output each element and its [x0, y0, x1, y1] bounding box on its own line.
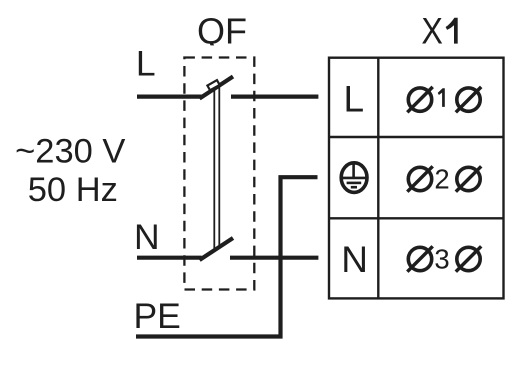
- terminal number 1: [438, 88, 445, 107]
- X1 column divider: [377, 58, 379, 299]
- svg-text:N: N: [134, 217, 160, 257]
- QF pole 2 switch contact (N): [200, 238, 234, 260]
- wire PE from supply to terminal 2: [136, 177, 318, 336]
- wire N from QF pole 2 to terminal 3: [230, 256, 318, 260]
- wire L from supply to QF pole 1: [137, 94, 202, 98]
- svg-text:~230 V: ~230 V: [15, 133, 125, 171]
- X1 row divider 1: [329, 136, 504, 138]
- terminal 2 screw left: [407, 166, 432, 191]
- wire N from supply to QF pole 2: [137, 256, 202, 260]
- terminal block X1 outline: [329, 58, 504, 299]
- wire L from QF pole 1 to terminal 1: [231, 94, 318, 98]
- svg-text:L: L: [136, 44, 156, 84]
- circuit breaker QF dashed enclosure: [184, 58, 254, 290]
- QF mechanical link: [214, 86, 219, 250]
- svg-text:N: N: [341, 239, 368, 280]
- svg-text:X: X: [421, 10, 443, 52]
- terminal 1 screw left: [407, 87, 432, 112]
- X1 row divider 2: [329, 217, 504, 219]
- QF pole 1 switch contact (L): [200, 77, 234, 99]
- protective earth symbol: [341, 163, 367, 193]
- terminal 3 screw left: [407, 246, 432, 271]
- svg-text:QF: QF: [197, 10, 247, 51]
- terminal 1 screw right: [456, 87, 481, 112]
- terminal 3 screw right: [456, 246, 481, 271]
- svg-text:2: 2: [434, 163, 449, 194]
- terminal 2 screw right: [456, 166, 481, 191]
- svg-text:L: L: [344, 79, 365, 120]
- svg-text:PE: PE: [134, 296, 181, 336]
- svg-text:50 Hz: 50 Hz: [28, 171, 118, 209]
- svg-text:3: 3: [434, 244, 449, 275]
